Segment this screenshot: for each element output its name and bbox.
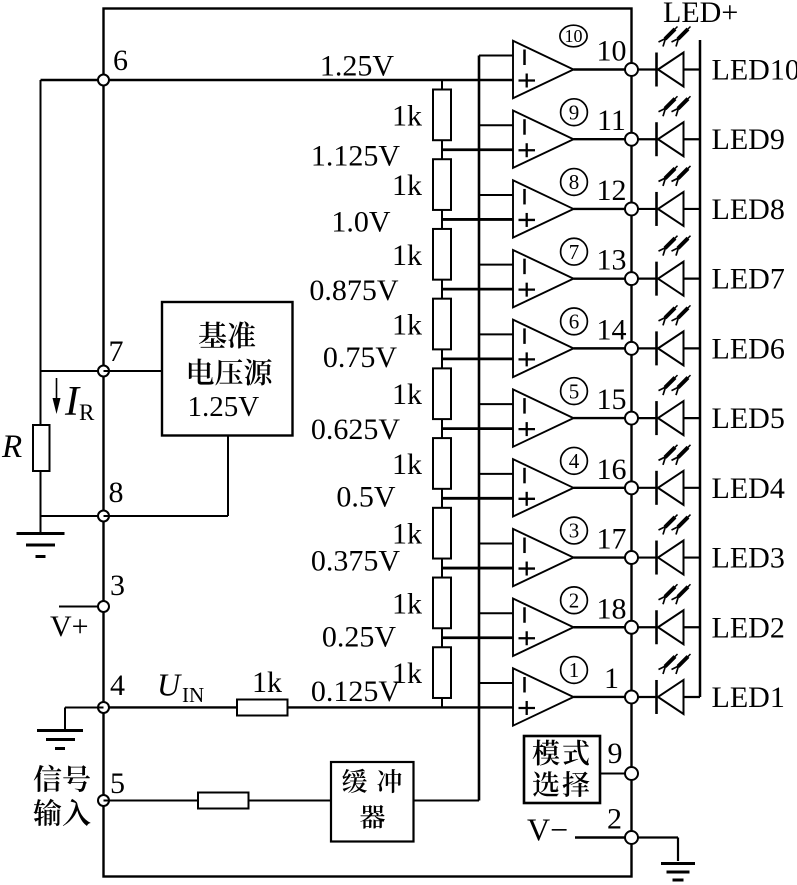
wire resistor chain	[441, 80, 443, 707]
op-amp comparator C2	[513, 599, 574, 656]
LED D4	[638, 445, 700, 505]
wire tap 0.75V	[442, 357, 513, 360]
LED D3	[638, 515, 700, 575]
resistor 1k (input)	[237, 700, 288, 716]
svg-text:2: 2	[607, 803, 622, 836]
svg-text:1: 1	[569, 658, 580, 682]
label comparator number 10	[560, 25, 587, 47]
wire pin8 stub	[41, 515, 104, 517]
label comparator number 3	[561, 517, 588, 544]
label comparator number 2	[561, 587, 588, 614]
svg-text:0.875V: 0.875V	[309, 274, 399, 307]
pin 9	[608, 737, 639, 780]
label 1k R8	[392, 587, 422, 620]
label comparator number 9	[561, 99, 588, 126]
wire R to ground	[40, 471, 42, 533]
wire comparator 4 output	[574, 487, 626, 489]
label 1k R6	[392, 448, 422, 481]
svg-text:LED3: LED3	[712, 542, 785, 575]
wire pin6 1.25V reference line	[41, 79, 514, 81]
op-amp comparator C9	[513, 111, 574, 168]
label 0.375V	[311, 545, 401, 578]
wire pin4 input line 0.125V tap	[104, 706, 514, 708]
svg-text:3: 3	[569, 519, 580, 543]
label 1k R1	[392, 99, 422, 132]
label 0.75V	[323, 341, 398, 374]
pin 10	[597, 35, 639, 77]
svg-text:R: R	[79, 400, 95, 425]
label 1k R4	[392, 309, 422, 342]
IC outline (LED driver)	[104, 9, 632, 877]
pin 3	[98, 569, 125, 612]
svg-text:1.0V: 1.0V	[331, 206, 391, 239]
wire V- stub	[575, 836, 625, 838]
label comparator number 1	[561, 657, 588, 684]
svg-text:2: 2	[569, 588, 580, 612]
pin 11	[597, 104, 638, 146]
mode select U3	[524, 736, 600, 803]
pin 18	[597, 592, 639, 634]
label comparator number 8	[561, 169, 588, 196]
label LED3	[712, 542, 785, 575]
wire tap 0.625V	[442, 427, 513, 430]
label LED6	[712, 332, 785, 365]
wire comparator 2 output	[574, 626, 626, 628]
svg-text:1.25V: 1.25V	[188, 391, 260, 423]
svg-text:1k: 1k	[392, 587, 422, 620]
svg-text:LED7: LED7	[712, 263, 785, 296]
label 1k (input)	[252, 666, 282, 699]
resistor R8 1k (chain)	[433, 578, 451, 629]
label signal input	[33, 765, 90, 826]
wire comparator 7 output	[574, 277, 626, 279]
label 1k R5	[392, 378, 422, 411]
svg-text:1.125V: 1.125V	[311, 140, 401, 173]
svg-text:1k: 1k	[252, 666, 282, 699]
wire comparator 10 output	[574, 68, 626, 70]
pin 8	[98, 476, 124, 522]
label comparator number 6	[561, 308, 588, 335]
svg-text:9: 9	[569, 100, 580, 124]
svg-text:LED5: LED5	[712, 402, 785, 435]
svg-text:1k: 1k	[392, 169, 422, 202]
svg-text:7: 7	[569, 240, 580, 264]
wire tap 0.875V	[442, 288, 513, 291]
label V-	[527, 812, 568, 848]
wire minus stub comp 8	[479, 194, 513, 196]
svg-text:1k: 1k	[392, 239, 422, 272]
svg-text:U: U	[157, 667, 182, 703]
svg-text:14: 14	[597, 313, 627, 346]
label 1.125V	[311, 140, 401, 173]
svg-text:1.25V: 1.25V	[320, 50, 395, 83]
svg-text:1k: 1k	[392, 448, 422, 481]
wire tap 1.0V	[442, 218, 513, 221]
wire comparator 9 output	[574, 138, 626, 140]
wire left rail	[40, 80, 42, 425]
label LED5	[712, 402, 785, 435]
wire minus stub comp 7	[479, 264, 513, 266]
svg-text:LED8: LED8	[712, 193, 785, 226]
op-amp comparator C6	[513, 320, 574, 377]
pin 2	[607, 803, 638, 845]
svg-text:LED1: LED1	[712, 681, 785, 714]
pin 13	[597, 244, 639, 286]
wire pin7 to ref box	[104, 370, 163, 372]
wire minus stub comp 5	[479, 403, 513, 405]
svg-text:1: 1	[604, 662, 619, 695]
wire pin7 stub	[41, 370, 104, 372]
wire tap 1.125V	[442, 148, 513, 151]
label 1k R7	[392, 518, 422, 551]
label LED7	[712, 263, 785, 296]
op-amp comparator C5	[513, 389, 574, 446]
label LED+	[663, 0, 738, 29]
svg-text:10: 10	[565, 26, 583, 46]
current arrow I_R	[53, 378, 96, 425]
svg-text:3: 3	[110, 569, 125, 602]
wire comparator 3 output	[574, 556, 626, 558]
svg-text:R: R	[1, 429, 22, 465]
svg-text:10: 10	[597, 35, 627, 68]
wire comparator 8 output	[574, 208, 626, 210]
buffer U2	[331, 762, 414, 842]
svg-text:17: 17	[597, 523, 627, 556]
op-amp comparator C8	[513, 180, 574, 237]
wire pin4 ground stub	[65, 707, 104, 729]
resistor R	[33, 425, 50, 471]
LED D10	[638, 27, 700, 87]
svg-text:0.75V: 0.75V	[323, 341, 398, 374]
svg-text:0.25V: 0.25V	[322, 621, 397, 654]
resistor R7 1k (chain)	[433, 508, 451, 559]
label 1k R3	[392, 239, 422, 272]
label LED8	[712, 193, 785, 226]
label LED4	[712, 472, 785, 505]
op-amp comparator C7	[513, 250, 574, 307]
label 1.0V	[331, 206, 391, 239]
wire tap 0.25V	[442, 636, 513, 639]
resistor R9 1k (chain)	[433, 647, 451, 698]
svg-text:1k: 1k	[392, 657, 422, 690]
reference source U1 1.25V	[162, 302, 293, 436]
op-amp comparator C3	[513, 529, 574, 586]
svg-text:1k: 1k	[392, 99, 422, 132]
label 0.875V	[309, 274, 399, 307]
resistor R3 1k (chain)	[433, 229, 451, 280]
label LED1	[712, 681, 785, 714]
svg-text:7: 7	[109, 335, 124, 368]
wire minus stub comp 6	[479, 333, 513, 335]
resistor R5 1k (chain)	[433, 368, 451, 419]
wire pin5 to buffer	[104, 800, 332, 802]
label 0.25V	[322, 621, 397, 654]
label comparator number 7	[561, 238, 588, 265]
LED D7	[638, 236, 700, 296]
svg-text:V−: V−	[527, 812, 568, 848]
label comparator number 4	[561, 447, 588, 474]
pin 5	[98, 767, 125, 806]
LED D1	[638, 654, 700, 714]
svg-text:1k: 1k	[392, 309, 422, 342]
svg-text:0.625V: 0.625V	[311, 413, 401, 446]
svg-text:LED+: LED+	[663, 0, 738, 29]
op-amp comparator C1	[513, 668, 574, 725]
wire comparator 6 output	[574, 347, 626, 349]
ground (pin 4)	[37, 731, 83, 749]
resistor R2 1k (chain)	[433, 159, 451, 210]
pin 14	[597, 313, 639, 355]
svg-text:5: 5	[110, 767, 125, 800]
wire mode select to pin9	[600, 773, 625, 775]
resistor R1 1k (chain)	[433, 90, 451, 141]
resistor R6 1k (chain)	[433, 438, 451, 489]
wire V+ stub	[59, 606, 104, 608]
pin 17	[597, 523, 639, 565]
LED D5	[638, 375, 700, 435]
label comparator number 5	[561, 378, 588, 405]
pin 16	[597, 453, 639, 495]
LED D6	[638, 305, 700, 365]
svg-text:LED6: LED6	[712, 332, 785, 365]
label 1k R9	[392, 657, 422, 690]
svg-text:V+: V+	[50, 610, 89, 643]
svg-text:IN: IN	[182, 683, 204, 707]
svg-text:6: 6	[113, 44, 128, 77]
wire buffer output	[414, 800, 480, 802]
wire signal rail	[478, 56, 481, 801]
svg-text:LED9: LED9	[712, 123, 785, 156]
svg-text:LED4: LED4	[712, 472, 785, 505]
label 0.5V	[336, 481, 396, 514]
wire comparator 1 output	[574, 696, 626, 698]
ground (V-)	[661, 864, 695, 881]
svg-text:6: 6	[569, 310, 580, 334]
svg-text:16: 16	[597, 453, 627, 486]
wire minus stub comp 10	[479, 55, 513, 57]
wire comparator 5 output	[574, 417, 626, 419]
wire minus stub comp 3	[479, 543, 513, 545]
pin 6	[98, 44, 128, 86]
op-amp comparator C10	[513, 41, 574, 98]
wire minus stub comp 9	[479, 124, 513, 126]
LED D8	[638, 166, 700, 226]
ground (left)	[17, 534, 65, 557]
label 0.125V	[311, 675, 401, 708]
op-amp comparator C4	[513, 459, 574, 516]
pin 7	[98, 335, 124, 377]
label V+	[50, 610, 89, 643]
svg-text:8: 8	[109, 476, 124, 509]
svg-text:9: 9	[608, 737, 623, 770]
svg-text:LED2: LED2	[712, 611, 785, 644]
pin 15	[597, 383, 639, 425]
resistor R4 1k (chain)	[433, 299, 451, 350]
wire minus stub comp 1	[479, 682, 513, 684]
pin 12	[597, 174, 639, 216]
wire pin2 to ground	[638, 838, 678, 862]
pin 1	[604, 662, 638, 704]
svg-text:0.375V: 0.375V	[311, 545, 401, 578]
LED D2	[638, 584, 700, 644]
label LED10	[712, 54, 797, 87]
svg-text:15: 15	[597, 383, 627, 416]
label 1.25V	[320, 50, 395, 83]
svg-text:4: 4	[110, 669, 125, 702]
svg-text:12: 12	[597, 174, 627, 207]
svg-text:0.5V: 0.5V	[336, 481, 396, 514]
wire tap 0.375V	[442, 567, 513, 570]
svg-text:13: 13	[597, 244, 627, 277]
label LED2	[712, 611, 785, 644]
label R	[1, 429, 22, 465]
wire minus stub comp 4	[479, 473, 513, 475]
svg-text:1k: 1k	[392, 378, 422, 411]
svg-text:8: 8	[569, 170, 580, 194]
resistor (pin5 series)	[198, 793, 249, 809]
wire pin8 to ref box	[104, 436, 229, 517]
label LED9	[712, 123, 785, 156]
svg-text:11: 11	[597, 104, 626, 137]
wire minus stub comp 2	[479, 612, 513, 614]
svg-text:18: 18	[597, 592, 627, 625]
label 0.625V	[311, 413, 401, 446]
LED D9	[638, 96, 700, 156]
svg-text:LED10: LED10	[712, 54, 797, 87]
svg-text:4: 4	[569, 449, 580, 473]
pin 4	[98, 669, 125, 713]
wire LED+ rail	[699, 40, 702, 697]
svg-text:5: 5	[569, 379, 580, 403]
label 1k R2	[392, 169, 422, 202]
wire tap 0.5V	[442, 497, 513, 500]
label U_IN	[157, 667, 204, 708]
svg-text:0.125V: 0.125V	[311, 675, 401, 708]
